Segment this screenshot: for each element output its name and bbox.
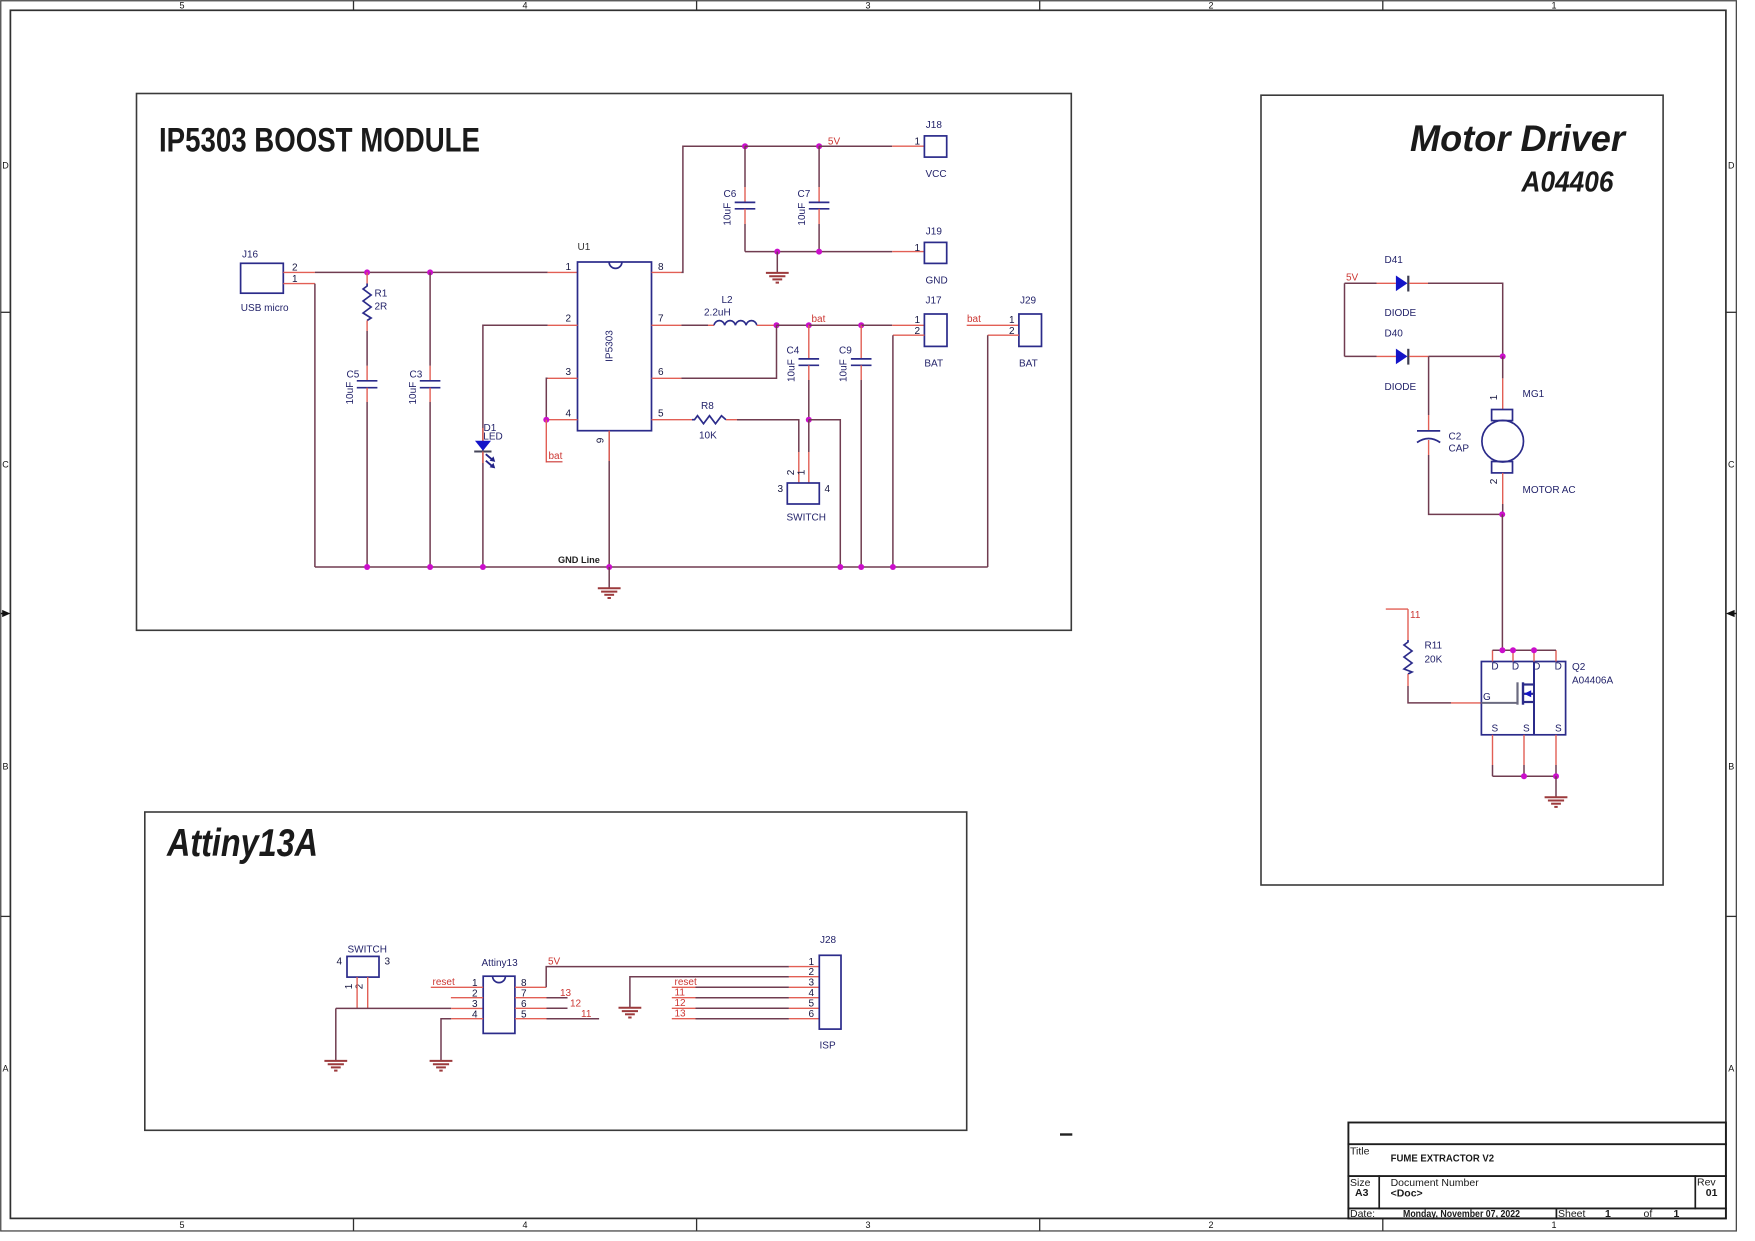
wire C3 top (429, 272, 431, 365)
svg-text:8: 8 (658, 262, 664, 273)
svg-text:DIODE: DIODE (1385, 308, 1417, 319)
node junction drain bus stub3 (1531, 647, 1537, 653)
svg-text:C2: C2 (1449, 432, 1462, 443)
switch SW1 (777, 469, 830, 523)
ground symbol below GND line (598, 567, 621, 598)
column tick bottom 3 (1039, 1218, 1041, 1231)
capacitor C2 (1417, 415, 1469, 455)
wire motor pin2 stub (1502, 473, 1504, 504)
svg-text:4: 4 (522, 0, 527, 10)
svg-text:2.2uH: 2.2uH (704, 308, 731, 319)
wire J17 pin1 stub (892, 324, 924, 326)
svg-text:SWITCH: SWITCH (787, 513, 826, 524)
titleblock divider rev (1694, 1176, 1696, 1208)
svg-text:10uF: 10uF (839, 359, 850, 382)
wire Attiny pin3 stub (451, 1007, 483, 1009)
capacitor C6 (723, 146, 756, 251)
block border IP5303 BOOST MODULE (137, 94, 1072, 631)
wire motor junction down to Q2 drain bus (1501, 514, 1503, 650)
LED D1 (474, 423, 503, 468)
motor MG1 (1482, 389, 1576, 496)
inductor L2 (704, 295, 777, 325)
wire U1 pin2 stub (548, 324, 578, 326)
svg-text:3: 3 (385, 957, 391, 968)
wire pin6 net 12 (547, 1007, 568, 1009)
node junction D40 D41 motor (1500, 353, 1506, 359)
wire Attiny pin7 stub (515, 997, 547, 999)
svg-text:5: 5 (179, 0, 184, 10)
node junction gnd rail ground tap (774, 249, 780, 255)
svg-text:4: 4 (336, 957, 342, 968)
node junction L2 out (774, 322, 780, 328)
column tick bottom 4 (1382, 1218, 1384, 1231)
svg-text:2: 2 (565, 314, 571, 325)
svg-text:A3: A3 (1355, 1187, 1369, 1199)
wire R11 to Q2 gate (1408, 686, 1451, 703)
svg-text:J17: J17 (926, 296, 943, 307)
svg-text:3: 3 (565, 367, 571, 378)
connector J29 BAT (1009, 296, 1042, 370)
BLOCK1 (137, 94, 1072, 631)
svg-text:5: 5 (808, 998, 814, 1009)
wire D40 anode lead (1345, 355, 1377, 357)
wire 5V to D41 (1345, 282, 1377, 284)
svg-text:Motor Driver: Motor Driver (1410, 117, 1627, 159)
svg-text:5: 5 (179, 1220, 184, 1230)
wire C6C7 gnd rail (745, 251, 892, 253)
svg-text:Sheet: Sheet (1558, 1208, 1586, 1220)
svg-text:10uF: 10uF (345, 382, 356, 405)
wire switch row to Attiny pin3 (336, 1007, 451, 1009)
svg-text:5V: 5V (548, 957, 561, 968)
resistor R1 (363, 272, 388, 331)
svg-text:J16: J16 (242, 250, 259, 261)
wire U1 pin7 stub (652, 324, 682, 326)
wire D41 cathode stub (1409, 282, 1428, 284)
svg-text:D41: D41 (1385, 255, 1404, 266)
svg-text:7: 7 (658, 314, 664, 325)
wire R8 row to gnd drop (809, 420, 841, 567)
svg-text:10uF: 10uF (408, 382, 419, 405)
resistor R11 (1404, 609, 1443, 686)
center marker dash bottom (1060, 1133, 1072, 1135)
row tick left 1 (1, 311, 11, 313)
svg-text:IP5303: IP5303 (605, 330, 616, 362)
connector J28 ISP (808, 935, 841, 1052)
column tick top 4 (1382, 1, 1384, 11)
svg-text:1: 1 (565, 262, 571, 273)
node junction GND line LED (480, 564, 486, 570)
svg-text:CAP: CAP (1449, 444, 1470, 455)
svg-text:BAT: BAT (924, 359, 943, 370)
svg-text:4: 4 (808, 988, 814, 999)
wire switch pin1 riser (808, 420, 810, 452)
svg-text:B: B (2, 762, 8, 772)
svg-text:6: 6 (658, 367, 664, 378)
svg-text:B: B (1728, 762, 1734, 772)
wire U1 pin9 down (608, 431, 610, 567)
svg-text:1: 1 (797, 469, 808, 475)
wire net13 row to J28 pin6 (672, 1018, 820, 1020)
titleblock row line 3 (1348, 1207, 1726, 1209)
wire left leg to ground (335, 1008, 337, 1061)
wire switch pin1 stub (808, 452, 810, 483)
node junction GND line C9 (858, 564, 864, 570)
svg-text:GND: GND (926, 276, 948, 287)
wire J29 pin2 to GND line (987, 335, 989, 567)
wire J17 pin2 stub (893, 334, 925, 336)
wire Attiny pin4 to ground (441, 1019, 451, 1061)
svg-text:5V: 5V (828, 137, 841, 148)
svg-text:Attiny13A: Attiny13A (166, 822, 318, 865)
wire J28 pin2 stub (789, 976, 819, 978)
wire D41 out to right corner (1428, 283, 1503, 356)
svg-text:20K: 20K (1425, 655, 1443, 666)
wire pin6 riser to bat row (681, 325, 776, 378)
svg-text:10uF: 10uF (723, 203, 734, 226)
svg-text:LED: LED (483, 432, 502, 443)
svg-text:A: A (1728, 1064, 1734, 1074)
svg-text:1: 1 (1489, 394, 1500, 400)
svg-text:of: of (1644, 1208, 1653, 1220)
wire U1 pin1 stub (548, 271, 578, 273)
wire Q2 drain bus (1493, 649, 1557, 651)
svg-text:C9: C9 (839, 346, 852, 357)
svg-text:S: S (1523, 724, 1530, 735)
svg-text:U1: U1 (578, 242, 591, 253)
net stub bat at pin4 (545, 420, 547, 463)
node junction motor bottom (1499, 511, 1505, 517)
wire J28 pin1 stub (789, 966, 819, 968)
svg-text:SWITCH: SWITCH (348, 945, 387, 956)
svg-text:A: A (2, 1064, 8, 1074)
wire U1 pin6 stub (652, 377, 682, 379)
svg-text:FUME EXTRACTOR V2: FUME EXTRACTOR V2 (1391, 1153, 1495, 1165)
wire SW2 pin1 stub (356, 977, 358, 1008)
svg-text:4: 4 (825, 484, 831, 495)
diode D40 (1385, 329, 1417, 394)
wire bat row C4 to C9 (809, 324, 861, 326)
GND line (315, 566, 988, 568)
wire J16 pin2 stub (283, 271, 315, 273)
svg-text:3: 3 (865, 0, 870, 10)
svg-text:G: G (1483, 692, 1491, 703)
svg-text:2R: 2R (375, 302, 388, 313)
svg-text:GND Line: GND Line (558, 555, 600, 565)
connector J18 VCC (914, 120, 946, 180)
capacitor C4 (786, 325, 819, 382)
wire Q2 source stub 3 (1555, 735, 1557, 765)
column tick top 3 (1039, 1, 1041, 11)
wire SW2 pin2 stub (367, 977, 369, 1008)
node junction GND line pin9 (606, 564, 612, 570)
wire C9 to GND line (860, 380, 862, 567)
BLOCK3 (145, 812, 967, 1130)
wire D40 cathode stub (1409, 355, 1429, 357)
wire net12 row to J28 pin5 (672, 1007, 820, 1009)
svg-text:1: 1 (1674, 1208, 1680, 1220)
svg-text:S: S (1491, 724, 1498, 735)
wire D40 out to junction (1429, 355, 1503, 357)
wire D41 anode stub (1377, 282, 1396, 284)
wire pin9 stub red (608, 431, 610, 461)
svg-text:1: 1 (914, 137, 920, 148)
svg-text:reset: reset (675, 977, 697, 988)
column tick top 2 (696, 1, 698, 11)
wire D40 anode stub (1377, 355, 1396, 357)
node junction source bus right (1553, 773, 1559, 779)
column tick top 1 (353, 1, 355, 11)
svg-text:A04406A: A04406A (1572, 676, 1613, 687)
connector J16 (241, 250, 298, 314)
svg-text:13: 13 (560, 988, 572, 999)
svg-text:VCC: VCC (926, 169, 947, 180)
wire C2 bottom to motor junction (1429, 455, 1503, 514)
node junction C7 top (816, 143, 822, 149)
wire C3 to GND line (429, 402, 431, 567)
wire motor pin1 (1502, 356, 1504, 378)
node junction GND line switch drop (837, 564, 843, 570)
wire U1 pin3 to pin4 row (546, 378, 547, 419)
svg-text:<Doc>: <Doc> (1391, 1187, 1423, 1199)
wire rail C6 to C7 (745, 145, 819, 147)
ground symbol attiny pin4 (430, 1061, 453, 1071)
svg-text:11: 11 (581, 1009, 592, 1020)
titleblock divider sheet (1555, 1208, 1557, 1218)
titleblock row line 2 (1348, 1175, 1726, 1177)
svg-text:J18: J18 (926, 120, 943, 131)
column tick bottom 1 (353, 1218, 355, 1231)
wire R8 to switch pin2 corner (737, 420, 799, 452)
wire source drop 3 (1555, 765, 1557, 776)
resistor R8 (692, 401, 737, 442)
svg-text:12: 12 (570, 999, 582, 1010)
switch SW2 (336, 945, 390, 990)
wire U1 pin3 stub (548, 377, 578, 379)
svg-text:2: 2 (786, 469, 797, 475)
svg-text:Title: Title (1350, 1146, 1370, 1158)
svg-text:1: 1 (914, 243, 920, 254)
svg-text:reset: reset (433, 977, 455, 988)
svg-text:S: S (1555, 724, 1562, 735)
svg-text:R11: R11 (1425, 641, 1443, 652)
wire J18 pin1 stub (892, 145, 924, 147)
node junction source bus mid (1521, 773, 1527, 779)
wire C4 to R8 row (808, 380, 810, 420)
net stub 11 (1386, 608, 1408, 610)
node junction pin4 bat (543, 417, 549, 423)
svg-text:2: 2 (1208, 0, 1213, 10)
wire pin7 net 13 (547, 997, 568, 999)
wire Q2 source bus (1493, 775, 1557, 777)
center marker arrow right (1726, 610, 1737, 617)
TITLEBLOCK (1348, 1123, 1726, 1221)
net label bat pin4 (546, 451, 562, 462)
svg-text:3: 3 (865, 1220, 870, 1230)
svg-text:J19: J19 (926, 227, 943, 238)
svg-text:C: C (2, 460, 9, 470)
svg-text:2: 2 (354, 983, 365, 989)
svg-text:5: 5 (658, 408, 664, 419)
wire Attiny pin2 stub (451, 997, 483, 999)
BLOCK2 (1261, 95, 1663, 885)
svg-text:13: 13 (675, 1009, 687, 1020)
svg-text:D40: D40 (1385, 329, 1404, 340)
wire C2 top branch (1428, 356, 1430, 415)
svg-text:1: 1 (1605, 1208, 1611, 1220)
node junction drain bus stub2 (1510, 647, 1516, 653)
svg-text:1: 1 (1009, 315, 1015, 326)
wire motor pin2 to junction (1502, 504, 1504, 514)
wire Q2 drain stub 3 (1533, 650, 1535, 661)
node junction drain bus main (1499, 647, 1505, 653)
connector J19 GND (914, 227, 947, 287)
block border Motor Driver (1261, 95, 1663, 885)
wire Attiny pin4 stub (451, 1018, 483, 1020)
wire source drop 2 (1523, 765, 1525, 776)
svg-text:2: 2 (1208, 1220, 1213, 1230)
svg-text:10uF: 10uF (797, 203, 808, 226)
svg-text:C7: C7 (798, 189, 811, 200)
svg-text:J29: J29 (1020, 296, 1037, 307)
wire J28 pin2 gnd branch (630, 977, 789, 1008)
wire J17 pin2 to GND line (892, 335, 894, 567)
svg-text:C3: C3 (410, 370, 423, 381)
svg-text:Q2: Q2 (1572, 662, 1586, 673)
wire Q2 drain stub 1 (1492, 650, 1494, 661)
svg-text:bat: bat (967, 314, 981, 325)
svg-text:ISP: ISP (820, 1041, 836, 1052)
svg-text:10K: 10K (699, 431, 717, 442)
svg-text:10uF: 10uF (786, 359, 797, 382)
svg-text:3: 3 (808, 977, 814, 988)
wire switch pin2 stub (798, 452, 800, 483)
wire 5V down to D40 (1344, 283, 1346, 356)
svg-text:L2: L2 (722, 295, 734, 306)
svg-text:D: D (1555, 662, 1562, 673)
svg-text:D: D (1512, 662, 1519, 673)
svg-text:R1: R1 (375, 289, 388, 300)
svg-text:C5: C5 (347, 370, 360, 381)
wire U1 pin8 stub (652, 271, 682, 273)
wire net11 row to J28 pin4 (672, 997, 820, 999)
svg-text:D: D (1728, 161, 1735, 171)
wire J16 pin2 to U1 pin1 (315, 271, 548, 273)
node junction C4 top (806, 322, 812, 328)
node junction C9 top (858, 322, 864, 328)
node junction C3 top (427, 269, 433, 275)
node junction GND line C3 (427, 564, 433, 570)
wire C5 to GND line (366, 402, 368, 567)
svg-text:DIODE: DIODE (1385, 382, 1417, 393)
svg-text:USB micro: USB micro (241, 303, 289, 314)
wire J19 pin1 stub (892, 251, 924, 253)
row tick left 2 (1, 915, 11, 917)
wire Q2 drain stub 2 (1512, 650, 1514, 661)
ground symbol below Q2 (1545, 776, 1568, 807)
node junction C7 bottom (816, 249, 822, 255)
wire motor pin1 stub (1502, 378, 1504, 409)
capacitor C7 (797, 146, 830, 251)
wire Q2 gate stub (1451, 702, 1481, 704)
capacitor C5 (345, 366, 378, 405)
svg-text:2: 2 (808, 967, 814, 978)
svg-text:Attiny13: Attiny13 (482, 958, 519, 969)
node junction C6 top (742, 143, 748, 149)
node junction R1 top (364, 269, 370, 275)
svg-text:A04406: A04406 (1521, 166, 1614, 198)
wire bat row C9 to J17 (861, 324, 892, 326)
IC U1 IP5303 (565, 242, 664, 443)
wire U1 pin4 stub (548, 419, 578, 421)
svg-text:1: 1 (914, 315, 920, 326)
svg-text:C4: C4 (787, 346, 800, 357)
svg-text:MG1: MG1 (1523, 389, 1545, 400)
svg-text:9: 9 (596, 437, 607, 443)
IC Attiny13 (472, 958, 527, 1033)
diode D41 (1385, 255, 1417, 319)
svg-text:bat: bat (549, 451, 563, 462)
node junction C4 bottom R8 row (806, 417, 812, 423)
wire J29 pin2 stub (988, 334, 1019, 336)
ground symbol switch (324, 1061, 347, 1071)
svg-text:Date:: Date: (1350, 1208, 1375, 1220)
svg-text:3: 3 (777, 484, 783, 495)
wire Q2 drain stub 4 (1555, 650, 1557, 661)
svg-text:C6: C6 (724, 189, 737, 200)
wire J16 pin1 stub (283, 283, 315, 285)
connector J17 BAT (914, 296, 947, 370)
svg-text:BAT: BAT (1019, 359, 1038, 370)
titleblock outline (1348, 1123, 1726, 1219)
wire Q2 source stub 2 (1523, 735, 1525, 765)
node junction GND line J17pin2 (890, 564, 896, 570)
wire U1 pin5 stub (652, 419, 693, 421)
svg-text:4: 4 (522, 1220, 527, 1230)
node junction GND line R1C5 (364, 564, 370, 570)
titleblock divider size (1378, 1176, 1380, 1208)
wire R1 to C5 (366, 331, 368, 366)
capacitor C3 (408, 366, 441, 405)
svg-text:D: D (1491, 662, 1498, 673)
wire bat to J29 pin1 (967, 324, 1019, 326)
row tick right 2 (1726, 915, 1737, 917)
svg-text:C: C (1728, 460, 1735, 470)
svg-text:12: 12 (675, 998, 687, 1009)
wire rail C7 to J18 (819, 145, 892, 147)
svg-text:4: 4 (565, 408, 571, 419)
wire reset row to J28 pin3 (672, 986, 820, 988)
wire source drop 1 (1492, 765, 1494, 776)
wire Attiny pin6 stub (515, 1007, 547, 1009)
svg-text:1: 1 (1551, 1220, 1556, 1230)
wire reset to Attiny pin1 (431, 986, 483, 988)
svg-text:MOTOR AC: MOTOR AC (1523, 485, 1576, 496)
wire pin7 to L2 (681, 324, 708, 326)
wire Q2 source stub 1 (1492, 735, 1494, 765)
column tick bottom 2 (696, 1218, 698, 1231)
row tick right 1 (1726, 311, 1737, 313)
wire pin8 riser to 5V rail (681, 146, 745, 272)
svg-text:11: 11 (675, 988, 686, 999)
ground symbol J28 pin2 (619, 1008, 642, 1018)
svg-text:Monday, November 07, 2022: Monday, November 07, 2022 (1403, 1208, 1520, 1220)
svg-text:5V: 5V (1346, 273, 1359, 284)
wire Attiny pin5 stub (515, 1018, 547, 1020)
svg-text:3: 3 (472, 999, 478, 1010)
wire pin5 net 11 (547, 1018, 600, 1020)
svg-text:2: 2 (1489, 478, 1500, 484)
